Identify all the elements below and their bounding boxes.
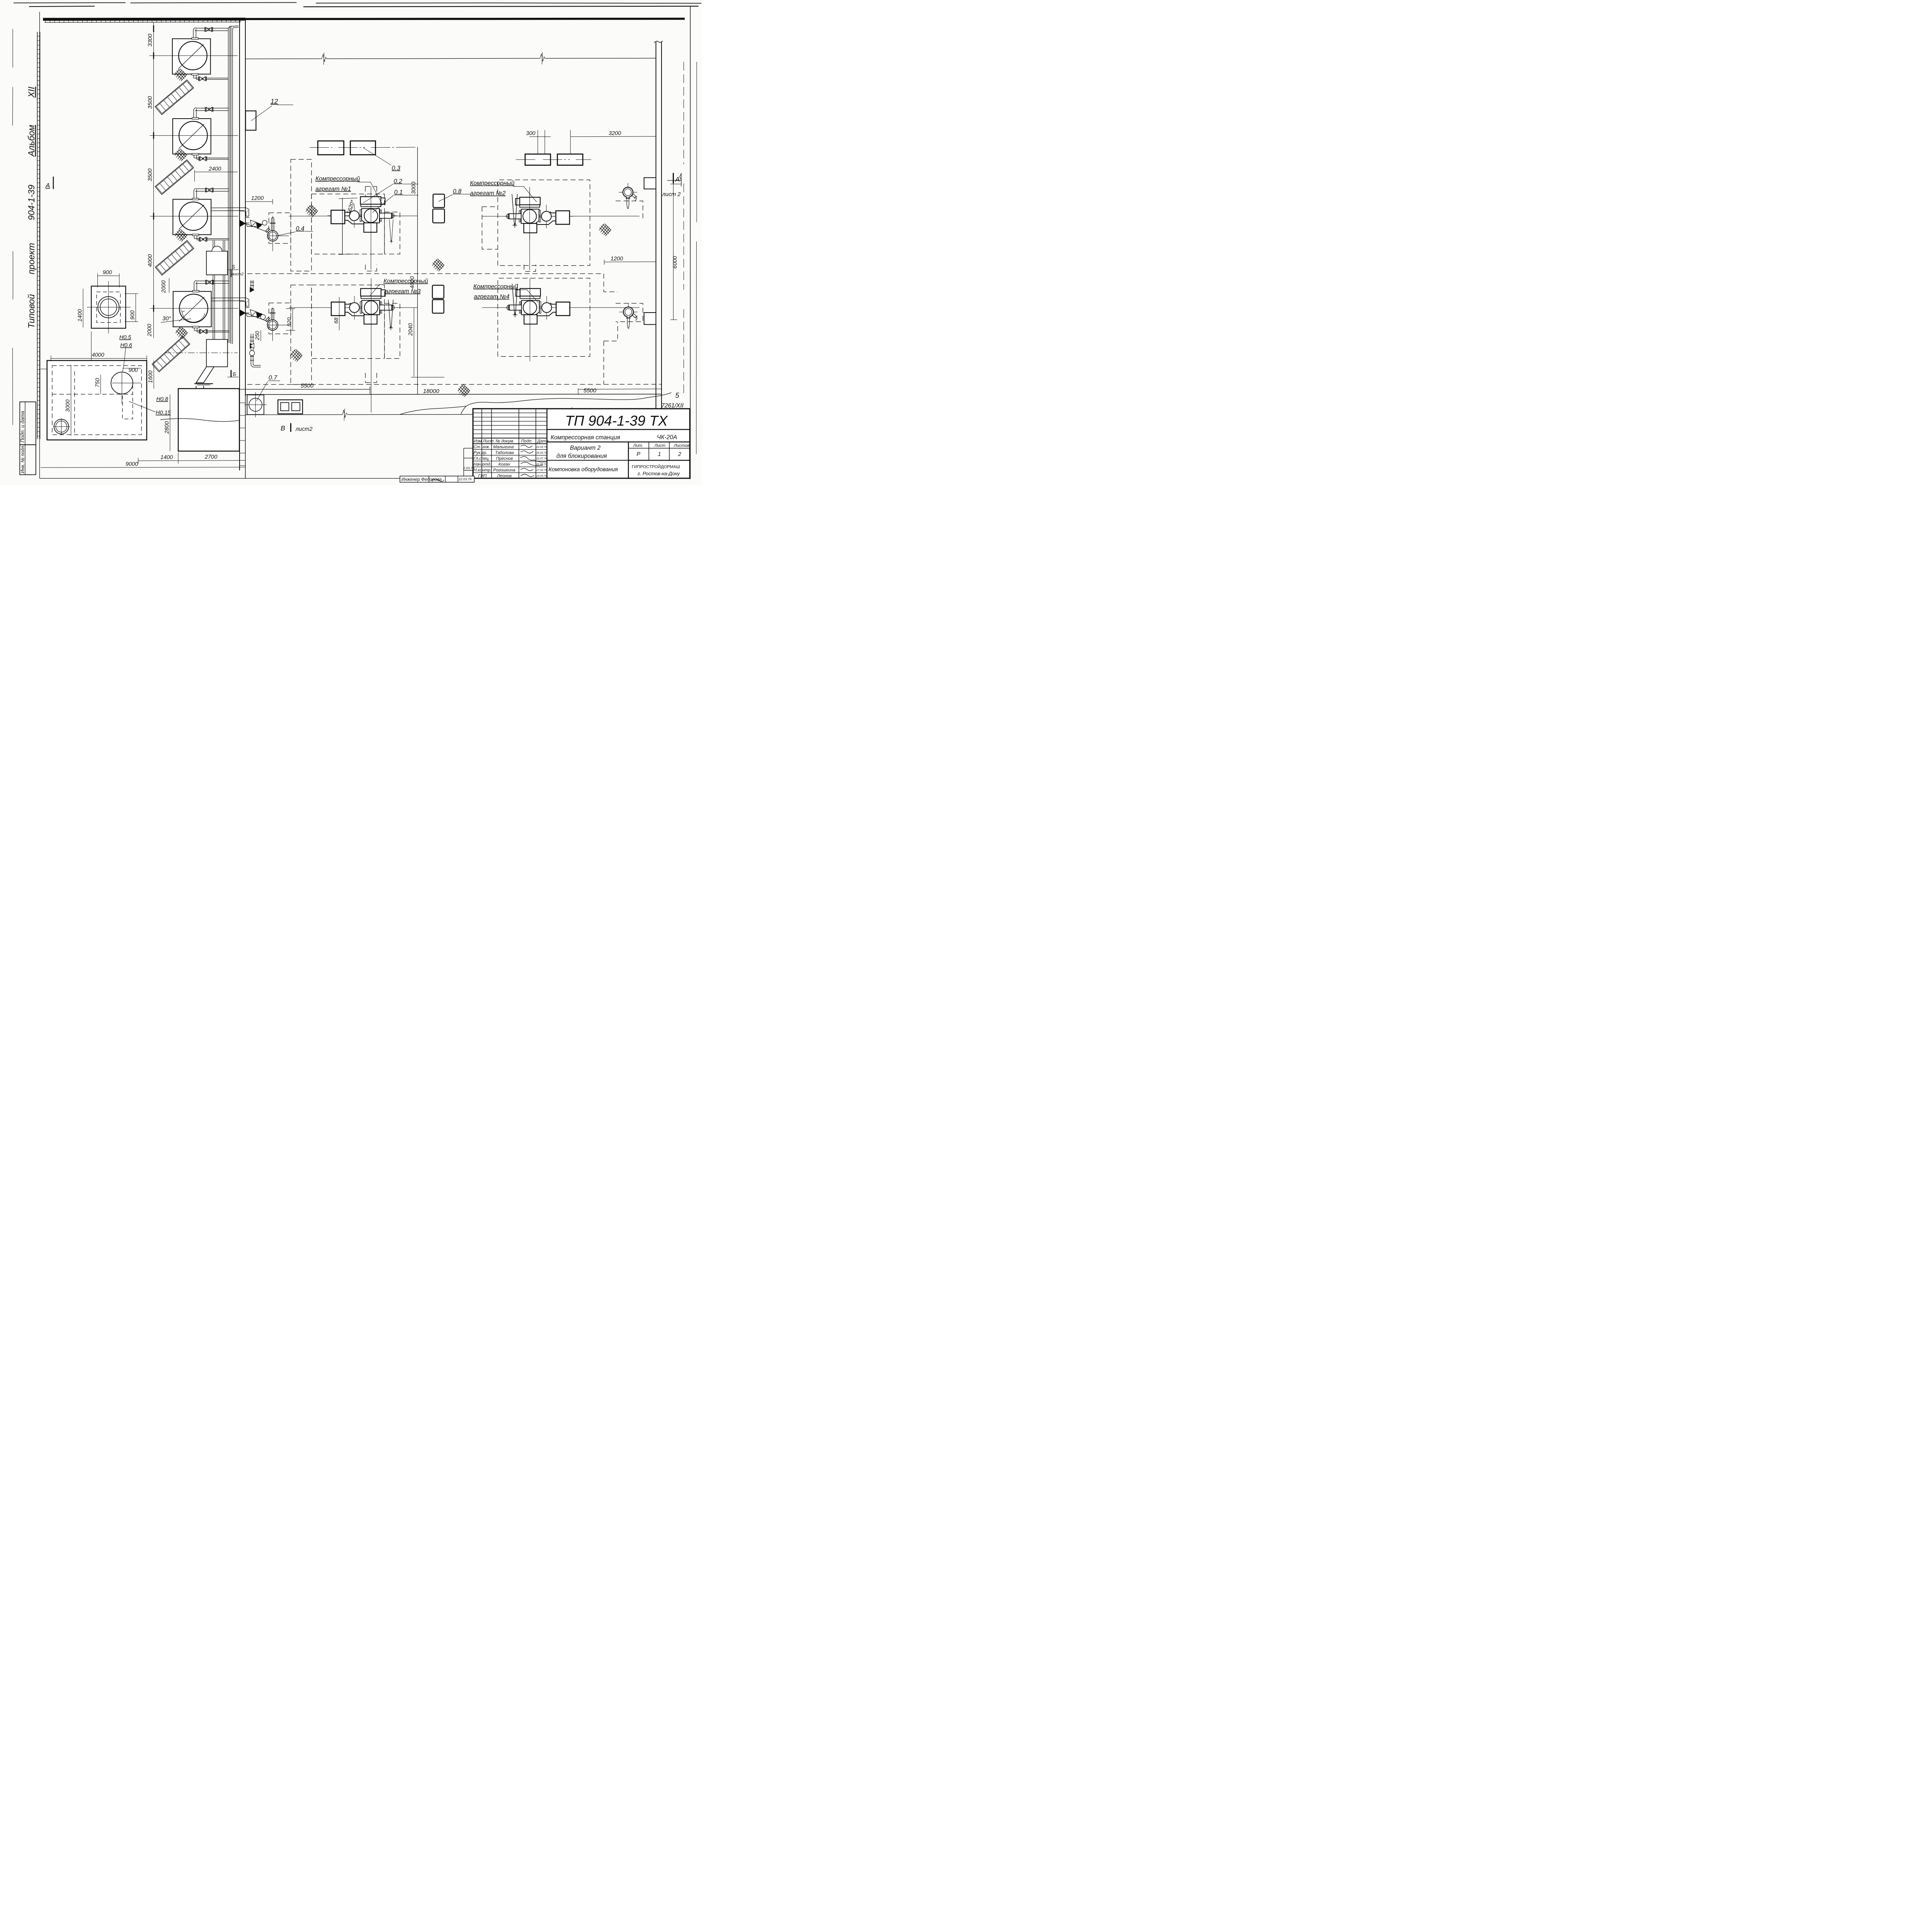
svg-text:Н0.5: Н0.5: [119, 335, 132, 341]
engineer strip: [400, 476, 474, 482]
top scan streak: [303, 6, 699, 7]
svg-text:Р: Р: [637, 451, 641, 457]
leader 0.1: [372, 189, 418, 213]
svg-text:2800: 2800: [164, 421, 170, 434]
svg-text:5: 5: [675, 392, 680, 400]
dim line лист2 top right flag: [680, 173, 681, 187]
funnel unit 4: [512, 284, 518, 317]
svg-text:22.07.79: 22.07.79: [536, 457, 547, 460]
svg-text:Рук.гр.: Рук.гр.: [474, 451, 488, 455]
svg-text:26.03.79: 26.03.79: [536, 452, 547, 454]
svg-text:XII: XII: [26, 87, 36, 98]
svg-text:Типовой: Типовой: [26, 294, 36, 328]
svg-text:904-1-39: 904-1-39: [26, 185, 36, 220]
svg-text:22.03.79: 22.03.79: [458, 477, 471, 481]
tank V2: [150, 107, 238, 161]
svg-text:4000: 4000: [92, 352, 104, 358]
leader 0.8: [439, 188, 471, 201]
svg-text:2400: 2400: [208, 166, 221, 172]
svg-text:Компрессорный: Компрессорный: [315, 176, 360, 182]
dim 3000 grid rotated: [411, 182, 417, 194]
svg-text:Листов: Листов: [673, 443, 689, 448]
svg-text:750: 750: [95, 378, 101, 387]
tank V1: [150, 27, 238, 81]
right frame line: [689, 6, 692, 479]
dim 900 right of pad rotated: [125, 294, 138, 322]
duct centerline: [165, 352, 238, 354]
radiator pair top right: [516, 154, 591, 165]
dim 1620 rotated: [338, 198, 357, 255]
svg-text:А: А: [45, 182, 50, 189]
svg-text:900: 900: [130, 310, 136, 320]
left dim chain 3300 3500 3500 4000: [147, 22, 154, 338]
bottom-left pad with rings: [87, 281, 131, 333]
svg-text:68: 68: [333, 318, 339, 324]
svg-text:В: В: [281, 424, 285, 432]
grating hatch V4: [176, 327, 188, 339]
grating hatch V3: [175, 229, 187, 241]
svg-text:0.8: 0.8: [453, 188, 461, 195]
hall bottom wall line: [245, 394, 662, 395]
dim 1200 right: [604, 256, 656, 265]
svg-text:300: 300: [526, 131, 535, 137]
leader 0.4: [277, 225, 313, 236]
dim 920 rotated: [286, 309, 295, 330]
right page edge line: [696, 62, 697, 454]
title block left table verticals: [482, 409, 547, 478]
upper duct box: [206, 251, 228, 275]
vertical centerline unit2: [529, 187, 531, 270]
unit row1 centerline: [289, 215, 418, 217]
right inner border dash line: [683, 62, 685, 394]
section mark B bottom: [228, 370, 239, 378]
left outer wall ruler: [37, 32, 40, 439]
svg-text:для блокирования: для блокирования: [556, 453, 607, 459]
svg-text:Компрессорный: Компрессорный: [384, 278, 429, 285]
compressor unit 4 (mirrored): [504, 283, 573, 332]
break glyph 1: [322, 53, 327, 65]
hall bottom outer line with breaks: [245, 414, 662, 415]
svg-text:Рогошкина: Рогошкина: [493, 468, 515, 473]
dim 250 rotated: [254, 330, 261, 341]
svg-text:Леонов: Леонов: [497, 474, 512, 478]
svg-text:22.03.79: 22.03.79: [536, 446, 547, 449]
pad with circle O7: [245, 392, 267, 417]
svg-text:0.7: 0.7: [269, 375, 277, 381]
top wall thick band: [43, 14, 245, 26]
compressor unit 2 (mirrored): [504, 192, 573, 240]
svg-text:3000: 3000: [411, 182, 417, 194]
break glyph 2: [540, 52, 545, 64]
svg-text:2: 2: [678, 451, 681, 457]
svg-text:0.1: 0.1: [394, 189, 403, 196]
unit row2 centerline: [289, 307, 418, 308]
wavy revision line: [400, 393, 672, 414]
section mark A right: [662, 173, 682, 198]
equipment 12 box: [246, 111, 256, 130]
control box with two squares: [278, 400, 303, 414]
svg-text:ГИП: ГИП: [478, 474, 487, 478]
floor hatch marks: [306, 205, 318, 217]
svg-text:2.03.79: 2.03.79: [463, 466, 474, 470]
svg-text:Компрессорный: Компрессорный: [473, 283, 518, 290]
dim 900 above pad: [98, 270, 119, 287]
label unit 2: [470, 180, 537, 202]
svg-text:2000: 2000: [146, 324, 153, 337]
dim 300 3200 top right: [526, 130, 656, 154]
svg-text:2000: 2000: [161, 281, 167, 293]
dim 2500: [41, 332, 91, 372]
left page edge dashes: [13, 29, 13, 425]
dim 1600: [148, 361, 154, 389]
dim 2400: [195, 166, 238, 182]
svg-text:Подп. и дата: Подп. и дата: [20, 411, 26, 442]
vertical centerline unit1: [370, 187, 372, 270]
svg-text:22.03.79: 22.03.79: [536, 475, 547, 478]
svg-text:1: 1: [658, 451, 661, 457]
funnel unit 3: [388, 300, 393, 330]
foundation dashed outlines row2: [247, 278, 662, 384]
section mark B top: [228, 264, 244, 277]
svg-text:3500: 3500: [147, 168, 153, 181]
svg-text:агрегат №4: агрегат №4: [474, 294, 510, 300]
foundation dashed outlines row1: [247, 160, 643, 292]
lower duct box: [206, 340, 228, 367]
svg-text:Инв. № подл.: Инв. № подл.: [20, 445, 26, 473]
funnel unit 2: [512, 194, 517, 228]
left stamp box: inv no podl: [20, 445, 36, 475]
svg-text:ГИПРОСТРОЙДОРМАШ: ГИПРОСТРОЙДОРМАШ: [632, 464, 680, 469]
label unit 1: [315, 176, 383, 205]
labels N08 N015: [129, 396, 171, 416]
left stamp box: podp i data: [20, 402, 36, 445]
svg-text:3300: 3300: [147, 34, 153, 47]
leader 0.2: [363, 178, 418, 203]
compressor unit 3: [328, 283, 397, 332]
svg-text:Альбом: Альбом: [26, 125, 36, 157]
svg-text:проект: проект: [26, 243, 36, 274]
dim chain 2000 2000: [146, 278, 169, 337]
bottom strip lines near wall: [239, 388, 370, 390]
water tank room bottom: [160, 386, 240, 451]
hall inner top line with breaks: [245, 58, 656, 59]
dim 1400 left of pad rotated: [77, 289, 83, 328]
dim 68 rotated: [333, 297, 340, 330]
dim 6000 rotated right: [670, 184, 681, 320]
svg-text:6000: 6000: [672, 256, 678, 269]
dim 4000 room: [51, 352, 147, 361]
gauge stand 2: [619, 303, 638, 328]
svg-text:0.2: 0.2: [394, 178, 402, 185]
svg-text:0.4: 0.4: [296, 225, 304, 232]
svg-text:Ст.инж.: Ст.инж.: [474, 445, 490, 449]
tank V4: [150, 280, 239, 334]
oil tank squares row1: [433, 194, 444, 223]
dim 750 rotated: [95, 375, 101, 394]
inner dividing wall: [238, 20, 241, 470]
grating hatch V1: [175, 69, 187, 81]
section mark V bottom: [281, 423, 312, 432]
svg-text:Компрессорный: Компрессорный: [470, 180, 515, 187]
svg-text:Коган: Коган: [498, 462, 510, 467]
svg-text:Дата: Дата: [537, 439, 549, 444]
right wall pilaster bottom: [644, 313, 656, 325]
ladder tank V3: [155, 240, 194, 275]
svg-text:27.03.79: 27.03.79: [536, 469, 547, 472]
svg-text:Вариант 2: Вариант 2: [570, 445, 601, 451]
header row text: [474, 439, 548, 444]
vertical centerline unit4: [529, 278, 531, 361]
svg-text:5500: 5500: [583, 388, 597, 394]
ladder tank V4: [152, 337, 190, 372]
label unit 4: [473, 283, 538, 302]
svg-text:1600: 1600: [148, 371, 154, 383]
svg-text:Малыгина: Малыгина: [493, 445, 514, 449]
bottom frame line: [40, 478, 690, 480]
bottom dims 1400 2700 9000: [41, 452, 245, 468]
grid column line vertical: [417, 147, 418, 395]
svg-text:2040: 2040: [408, 323, 414, 336]
ladder tank V2: [155, 160, 194, 195]
left frame line: [39, 12, 41, 479]
svg-text:Н.контр.: Н.контр.: [474, 468, 492, 473]
funnel unit 1: [389, 219, 393, 243]
svg-text:7261/ХII: 7261/ХII: [661, 403, 684, 409]
svg-text:№ докум.: № докум.: [496, 439, 514, 444]
svg-text:агрегат №3: агрегат №3: [385, 288, 421, 295]
svg-text:18000: 18000: [423, 388, 439, 395]
svg-text:3200: 3200: [609, 131, 621, 137]
svg-text:9000: 9000: [126, 461, 138, 468]
dim 2800: [164, 395, 170, 451]
svg-text:1200: 1200: [251, 196, 264, 202]
svg-text:ТП 904-1-39 ТХ: ТП 904-1-39 ТХ: [565, 413, 668, 429]
svg-text:Таболова: Таболова: [495, 451, 514, 455]
leader 0.3: [363, 148, 400, 172]
svg-text:30°: 30°: [162, 315, 171, 322]
svg-text:1400: 1400: [77, 309, 83, 321]
svg-text:Компрессорная станция: Компрессорная станция: [551, 434, 620, 441]
svg-text:Н0.8: Н0.8: [156, 396, 168, 403]
separator O4 assembly row1: [212, 208, 289, 252]
svg-text:Изм: Изм: [474, 439, 482, 444]
svg-text:3000: 3000: [65, 400, 71, 412]
dim 1200 row1: [245, 196, 273, 204]
svg-text:12: 12: [270, 97, 278, 105]
tank V3: [150, 188, 238, 242]
duct chute: [196, 367, 214, 383]
section mark A1 left: [45, 177, 54, 190]
svg-text:5500: 5500: [301, 383, 314, 389]
svg-text:Лист: Лист: [483, 439, 494, 444]
right wall pilaster top: [644, 178, 656, 189]
lower-left room: [47, 361, 147, 440]
oil tank squares row2: [432, 285, 444, 313]
page top edge scan line: [14, 3, 701, 3]
svg-text:3500: 3500: [147, 96, 153, 109]
vertical centerline unit3: [371, 278, 372, 413]
gauge stand 1: [619, 183, 637, 209]
svg-text:1200: 1200: [611, 256, 623, 262]
svg-text:4000: 4000: [147, 254, 153, 267]
svg-text:920: 920: [286, 317, 292, 327]
dim 3000 room rotated: [65, 365, 71, 436]
label unit 3: [370, 278, 429, 296]
svg-text:А: А: [675, 175, 680, 183]
svg-text:2700: 2700: [204, 454, 217, 460]
top wall brick tick row: [44, 22, 241, 22]
title block: [473, 409, 690, 478]
signature rows: [474, 445, 547, 478]
chute flange: [194, 382, 213, 386]
labels N05 N06: [119, 335, 133, 372]
vertical album annotation: Tipovoy proekt 904-1-39 Albom XII: [26, 87, 36, 328]
svg-text:Н0.15: Н0.15: [156, 410, 171, 416]
svg-text:Лист: Лист: [654, 443, 665, 448]
svg-text:Инженер Федорова: Инженер Федорова: [401, 478, 442, 482]
svg-text:лист2: лист2: [231, 272, 244, 277]
ladder tank V1: [155, 80, 194, 115]
svg-text:лист2: лист2: [295, 426, 313, 432]
signature scribbles: [520, 445, 547, 477]
right wall top break: [654, 41, 663, 43]
valve chain above row1: [250, 280, 254, 292]
right wall double line: [655, 42, 658, 411]
svg-text:Б: Б: [232, 264, 235, 270]
radiator pair top left: [310, 141, 417, 155]
dim 2040 rotated: [408, 308, 444, 377]
svg-text:Гл.спец.: Гл.спец.: [474, 456, 490, 461]
svg-text:г. Ростов-на-Дону: г. Ростов-на-Дону: [638, 471, 680, 476]
svg-text:лист 2: лист 2: [662, 192, 681, 198]
title block left table rows: [473, 413, 547, 473]
svg-text:1400: 1400: [160, 454, 173, 461]
svg-text:900: 900: [103, 270, 112, 276]
svg-text:Б: Б: [233, 371, 236, 377]
dim 900 small room: [122, 367, 141, 374]
valve chain below row2: [250, 334, 261, 367]
svg-text:Нач.отд.: Нач.отд.: [474, 462, 492, 467]
grating hatch V2: [175, 149, 187, 161]
svg-text:агрегат №1: агрегат №1: [315, 186, 351, 192]
svg-text:ЧК-20А: ЧК-20А: [657, 434, 677, 440]
dim 4000 grid rotated: [409, 276, 415, 289]
svg-text:0.3: 0.3: [392, 165, 400, 172]
svg-text:Лит.: Лит.: [633, 443, 643, 448]
separator assembly row2: [212, 298, 289, 341]
svg-text:агрегат №2: агрегат №2: [470, 190, 506, 197]
manifold pipes vertical: [228, 26, 239, 344]
svg-text:250: 250: [254, 331, 260, 340]
exhaust duct lines along wall: [213, 241, 225, 340]
compressor unit 1: [328, 191, 397, 240]
svg-text:4000: 4000: [409, 276, 415, 289]
lit list listov table: [628, 442, 690, 461]
svg-text:Компоновка оборудования: Компоновка оборудования: [549, 467, 618, 473]
svg-text:Подп.: Подп.: [521, 439, 532, 444]
wall masonry ticks bottom: [240, 403, 245, 466]
svg-text:Н0.6: Н0.6: [120, 342, 133, 349]
svg-text:900: 900: [129, 367, 138, 374]
svg-text:Преснов: Преснов: [496, 456, 513, 461]
duct dome: [212, 246, 222, 251]
narrow column left of title block: [464, 448, 473, 478]
